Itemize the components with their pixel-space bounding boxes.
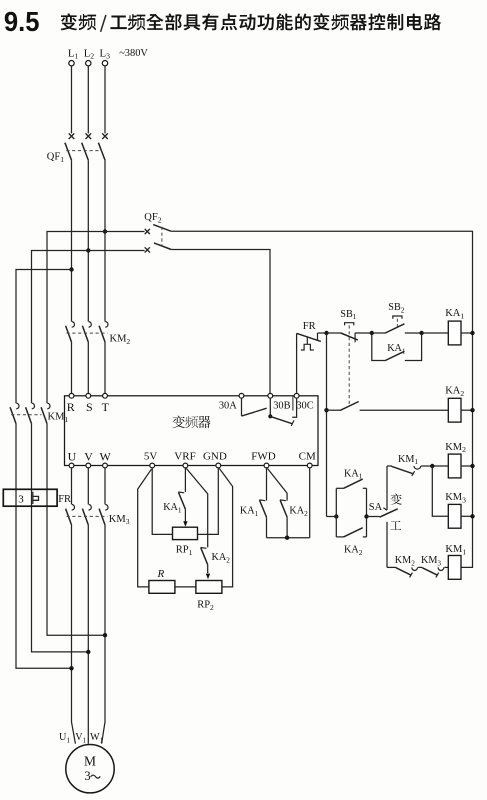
node tap L3 [103,229,107,233]
terminal L1 [68,47,79,66]
svg-text:RP1: RP1 [176,545,193,557]
svg-text:3: 3 [84,769,90,783]
svg-text:FR: FR [303,321,316,332]
wire T drop [104,342,106,393]
svg-text:KA2: KA2 [212,552,231,564]
terminal 30A [219,393,244,411]
motor M 3-phase [66,745,114,793]
svg-text:U: U [68,450,77,464]
svg-text:SA: SA [369,502,383,513]
wire rung1 d [422,332,449,334]
wire rung4 a [387,566,396,568]
svg-text:9.5: 9.5 [4,6,40,37]
svg-text:VRF: VRF [174,450,195,462]
wire rung1 e [461,332,473,334]
wire L1 mid [71,160,73,322]
wire L3 mid [104,160,106,322]
svg-text:~380V: ~380V [119,48,148,59]
wire rung3 a [387,465,392,467]
contactor aux KM3 NC [421,555,444,577]
contact KA1 wiper [163,468,187,527]
thermal relay FR heater [3,489,71,506]
wire tap L2 to bypass [32,251,89,404]
node join V [86,650,90,654]
label V1 [75,732,86,744]
svg-text:R: R [67,400,75,414]
svg-text:CM: CM [299,450,316,462]
contactor coil KM1 [445,544,466,579]
terminal 30B [268,393,291,411]
terminal T [102,393,110,414]
svg-text:QF2: QF2 [144,212,161,224]
node combo right [364,514,368,518]
terminal 5V [144,450,158,468]
wire rung1 c [405,332,422,334]
svg-text:W1: W1 [90,732,104,744]
node jog join [285,536,289,540]
terminal R [67,393,75,414]
svg-text:U1: U1 [59,732,70,744]
svg-text:30A: 30A [219,400,237,411]
node rung2 left [324,408,328,412]
node rail3 right [470,464,474,468]
wire QF2 to 30B [171,250,270,394]
relay coil KA1 [445,308,464,345]
svg-text:KM2: KM2 [445,442,466,454]
potentiometer RP1 [173,527,198,557]
breaker QF2 [144,212,171,253]
svg-text:KM2: KM2 [110,334,131,346]
terminal W [100,450,112,468]
svg-text:L1: L1 [68,47,79,60]
svg-text:5V: 5V [144,450,158,462]
heading number 9.5 [4,6,40,37]
wire GND to RP1 right [198,468,219,535]
wire rung1 b [355,332,372,334]
wire rung1 a [327,332,342,334]
svg-text:SB2: SB2 [388,302,404,314]
label ~380V [119,48,148,59]
contact KA2 forward [280,500,308,538]
breaker QF1 [47,133,108,164]
svg-text:3: 3 [18,494,24,506]
svg-text:30C: 30C [296,400,313,411]
svg-text:W: W [100,450,112,464]
wire L1 drop [71,66,73,133]
svg-text:KA2: KA2 [445,386,464,398]
wire QF2 feed a [105,231,145,233]
terminal FWD [251,450,276,468]
wire rung2 b [360,409,449,411]
svg-text:QF1: QF1 [47,152,64,164]
resistor R [149,568,175,593]
svg-text:KM3: KM3 [445,492,466,504]
terminal VRF [174,450,195,468]
contactor aux KM2 NC [395,555,418,577]
node rail top [324,331,328,335]
wire FWD drop [266,468,268,501]
contactor aux KM1 NC [391,454,420,476]
wire bypass2 low [32,424,89,652]
wire rung4 c [444,566,448,568]
wire rung3 c [461,465,473,467]
wire tap L1 to bypass [16,270,72,404]
potentiometer RP2 [196,581,222,612]
node rung3 mid [430,464,434,468]
relay coil KA2 [445,386,464,422]
terminal L3 [100,47,111,66]
wire left rail [326,333,328,517]
svg-text:L3: L3 [100,47,111,60]
svg-text:GND: GND [203,450,227,462]
stop button SB1 contact1 [340,309,358,407]
contactor KM3 main contacts [66,505,130,527]
wire rail to combo [327,516,337,518]
svg-text:KA1: KA1 [163,502,182,514]
svg-text:KA1: KA1 [387,343,406,355]
wire CM drop [309,468,311,538]
label 工 position [390,521,401,530]
relay contacts KA1 KA2 parallel [336,468,366,557]
wire bypass1 low [16,424,72,669]
wire W drop [104,468,106,505]
wire GND diag to RP2 right [219,468,232,587]
wire V drop [87,468,89,505]
wire VRF diag to KA2 [186,468,207,547]
label 变 position [391,494,402,505]
wire rung3 b [421,465,448,467]
wire km3 branch [432,466,448,516]
wire bypass3 low [47,424,105,636]
svg-text:S: S [86,400,93,414]
svg-text:KM2: KM2 [395,555,415,567]
svg-text:M: M [84,754,96,769]
terminal 30C [294,393,314,411]
wire W low [102,525,105,744]
node rail1 right [470,331,474,335]
inverter U1 box [65,396,319,466]
svg-text:KA2: KA2 [344,544,363,556]
svg-text:KA1: KA1 [240,506,259,518]
svg-text:FWD: FWD [251,450,276,462]
contactor KM2 main contacts [66,322,131,346]
node tap L2 [86,248,90,252]
label 变频器 [172,416,210,428]
wire S drop [87,342,89,393]
svg-text:KM1: KM1 [398,454,418,466]
wire L3 drop [104,66,106,133]
jog button SB1 contact2 [340,402,359,411]
wire L2 drop [87,66,89,133]
node sb2 left [370,331,374,335]
terminal L2 [84,47,95,66]
separator tick 30C [292,396,294,410]
svg-text:V1: V1 [75,732,86,744]
node join U [69,666,73,670]
wire tap L3 to bypass [47,232,105,404]
selector switch SA [367,466,398,567]
title text [61,13,442,31]
relay contact 30A-30B-30C [242,398,297,426]
wire 5V diag to R [138,469,152,587]
svg-text:SB1: SB1 [340,309,356,321]
svg-text:KA2: KA2 [289,506,308,518]
svg-text:KM3: KM3 [421,555,441,567]
svg-text:RP2: RP2 [197,600,214,612]
terminal CM [299,450,316,468]
svg-text:30B: 30B [273,400,290,411]
wire jog common [267,537,310,539]
terminal U [68,450,77,468]
svg-text:R: R [157,568,165,580]
wire FWD diag [267,468,287,500]
svg-text:FR: FR [58,494,71,505]
thermal contact FR [297,321,327,350]
svg-text:KM1: KM1 [445,544,466,556]
wire rung2 c [461,409,473,411]
svg-text:L2: L2 [84,47,95,60]
wire L2 mid [87,160,89,322]
contactor coil KM2 [445,442,466,478]
wire km3 right [461,515,473,517]
wire control rail right [171,231,473,567]
node join W [103,633,107,637]
terminal GND [203,450,227,468]
contactor KM1 main contacts [10,403,68,424]
wire rung4 b [418,566,422,568]
svg-text:KM1: KM1 [48,412,69,424]
label W1 [90,732,104,744]
wire R to RP2 [175,586,196,588]
node sb2 right [419,331,423,335]
node tap L1 [69,267,73,271]
wire R drop [71,342,73,393]
start button SB2 [372,302,405,333]
contact KA1 forward [240,500,267,538]
label U1 [59,732,70,744]
wire 30C to FR [296,333,298,393]
svg-text:KA1: KA1 [344,468,363,480]
terminal S [86,393,93,414]
relay contact KA1 selfhold [372,333,422,361]
wire V low [87,525,89,744]
contactor coil KM3 [445,492,466,528]
wire QF2 feed b [88,250,144,252]
wire U drop [71,468,73,505]
contact KA2 wiper [201,548,231,580]
svg-text:KA1: KA1 [445,308,464,320]
node combo feed [334,514,338,518]
svg-text:V: V [84,450,93,464]
node rail4 right [470,514,474,518]
svg-text:T: T [102,400,110,414]
wire U low [72,525,76,744]
svg-text:KM3: KM3 [109,514,130,526]
node rail2 right [470,408,474,412]
terminal V [84,450,93,468]
wire rung2 a [327,409,341,411]
wire 5V to RP1 left [152,468,172,535]
